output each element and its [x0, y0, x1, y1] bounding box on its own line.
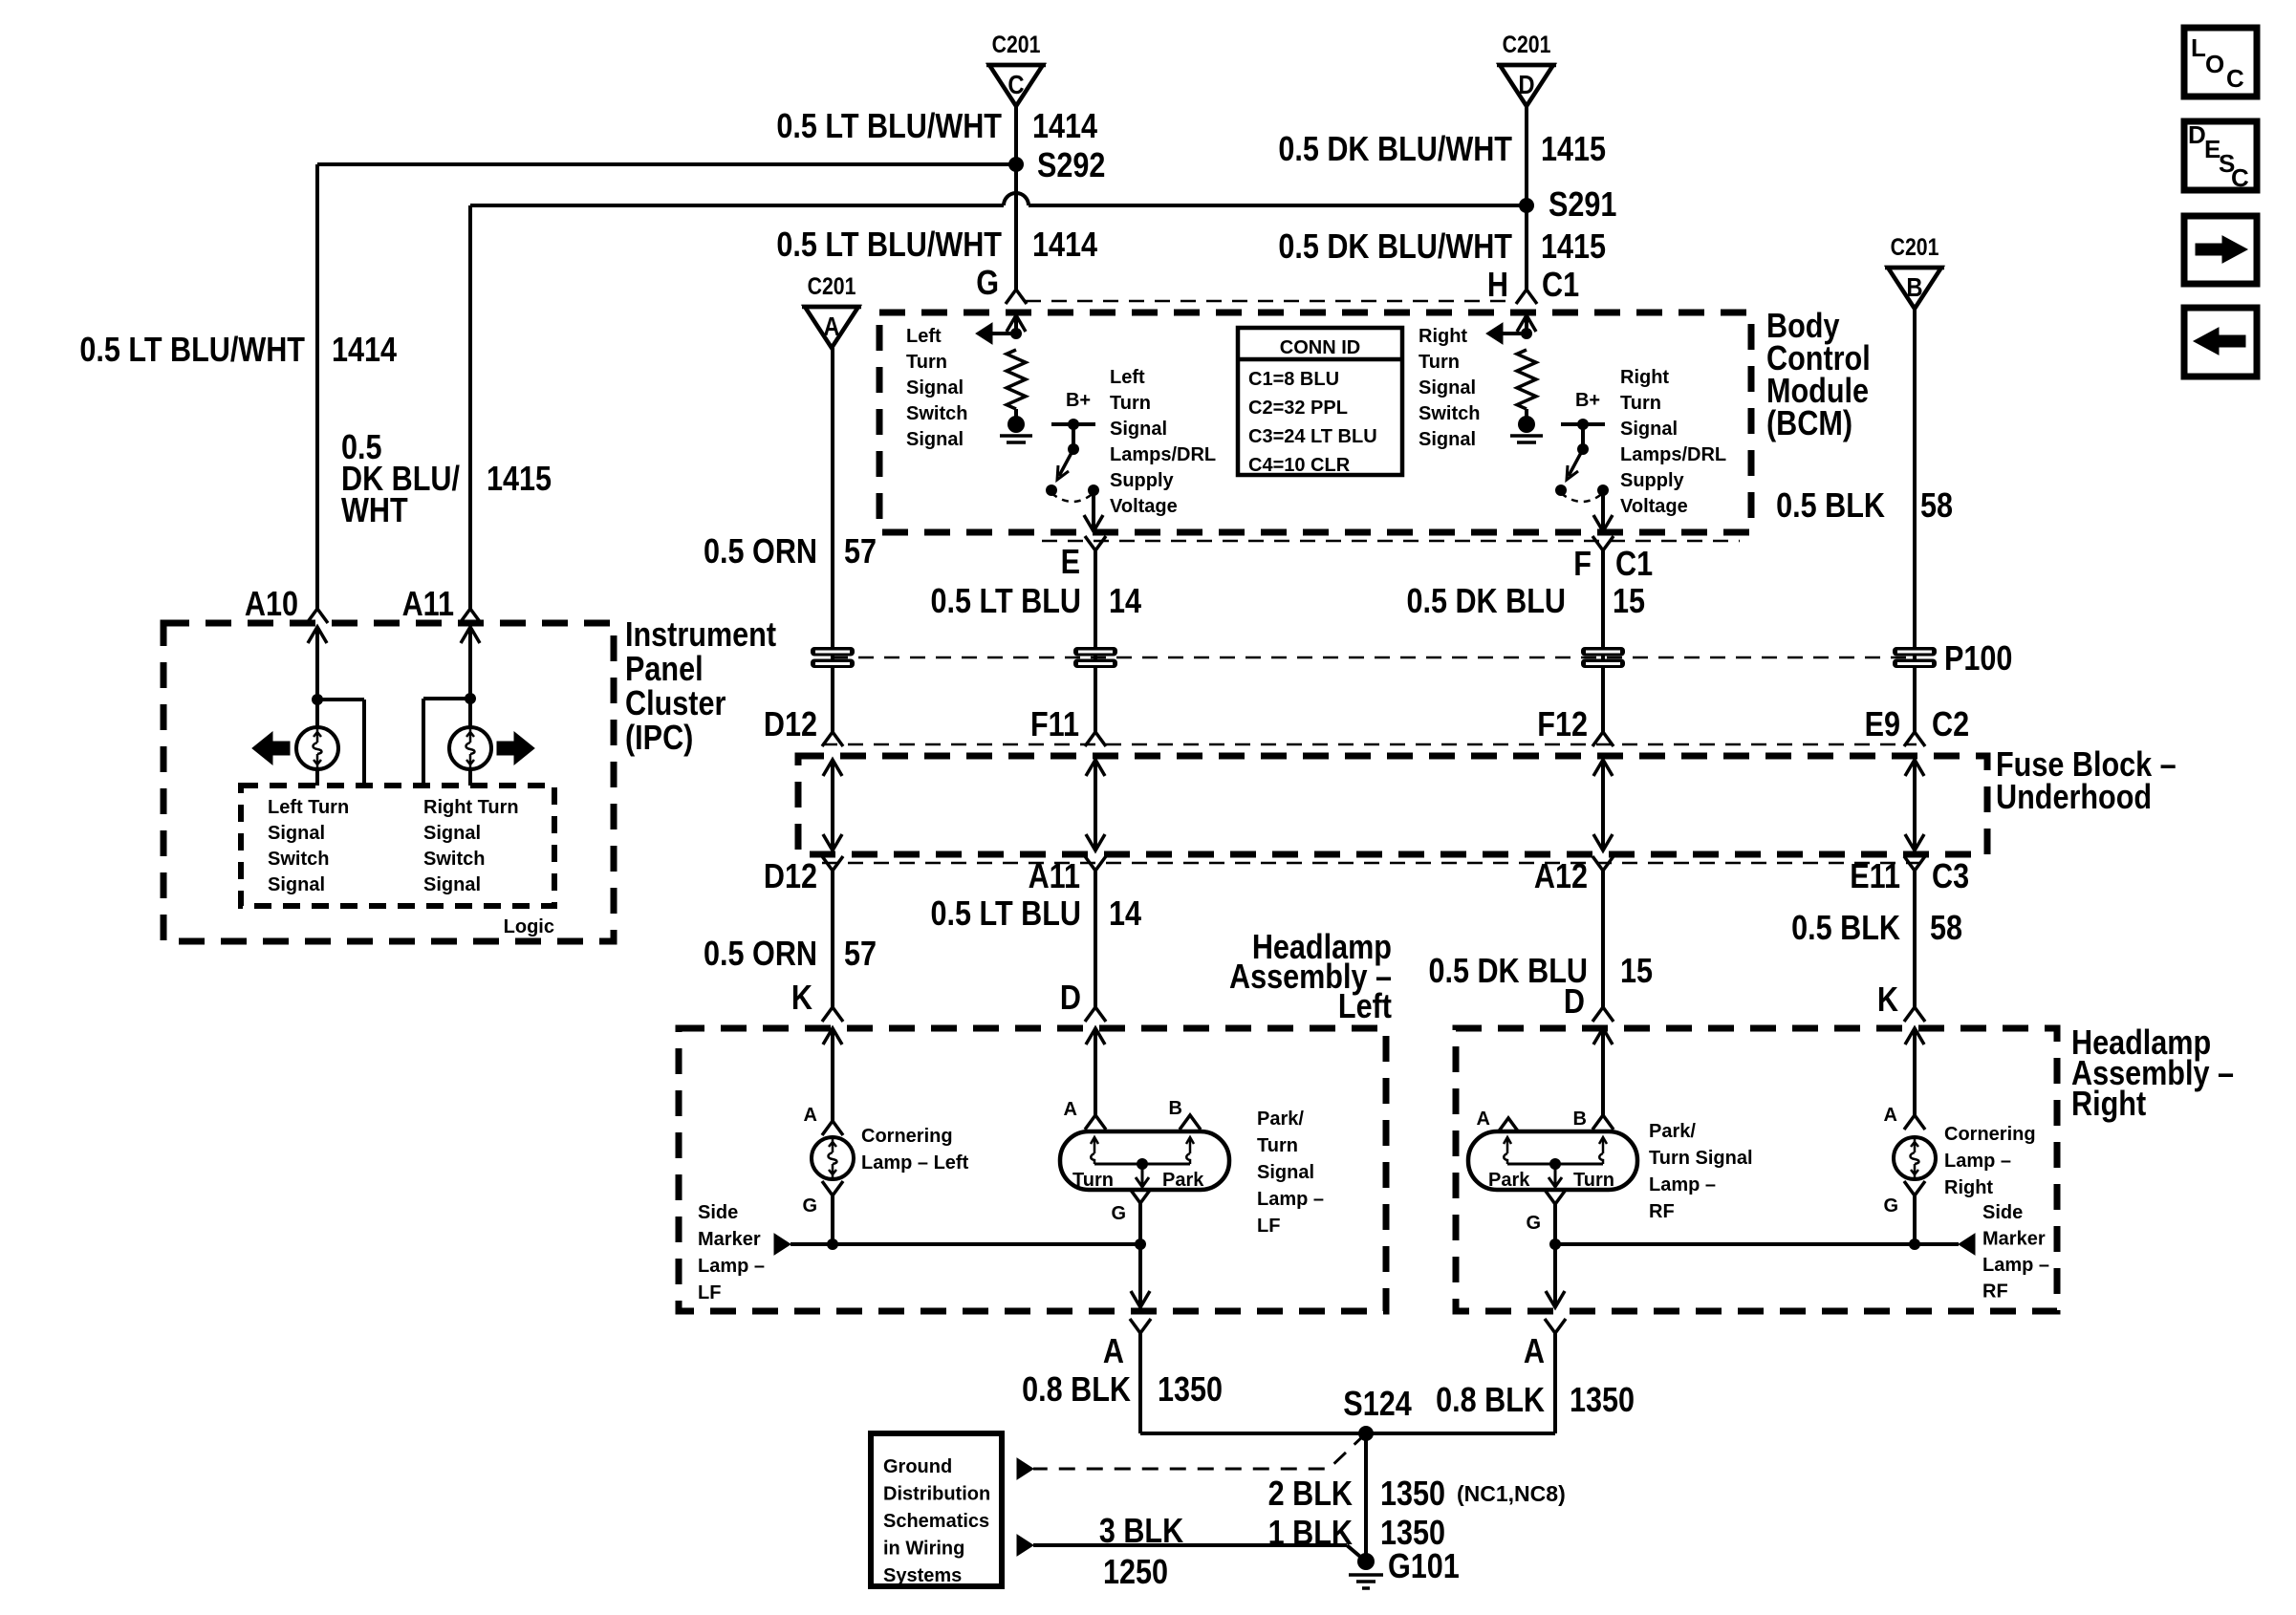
- svg-text:Turn: Turn: [1110, 393, 1151, 414]
- svg-text:B: B: [1906, 271, 1922, 302]
- svg-text:Switch: Switch: [906, 403, 967, 424]
- svg-text:Switch: Switch: [423, 849, 485, 870]
- svg-text:0.5 LT BLU: 0.5 LT BLU: [931, 583, 1081, 621]
- svg-text:Schematics: Schematics: [883, 1511, 989, 1532]
- svg-text:1350: 1350: [1570, 1382, 1635, 1420]
- svg-text:Turn Signal: Turn Signal: [1649, 1148, 1753, 1169]
- svg-text:Lamp –: Lamp –: [1982, 1255, 2049, 1276]
- svg-text:1415: 1415: [487, 461, 552, 499]
- svg-text:15: 15: [1620, 953, 1653, 991]
- svg-text:0.8 BLK: 0.8 BLK: [1436, 1382, 1545, 1420]
- svg-text:LF: LF: [698, 1282, 721, 1303]
- svg-text:0.5 LT BLU/WHT: 0.5 LT BLU/WHT: [776, 226, 1002, 265]
- svg-text:0.5 DK BLU/WHT: 0.5 DK BLU/WHT: [1278, 131, 1512, 169]
- svg-text:CONN ID: CONN ID: [1280, 337, 1360, 358]
- svg-text:57: 57: [844, 936, 877, 974]
- svg-text:(NC1,NC8): (NC1,NC8): [1457, 1481, 1566, 1506]
- svg-text:Turn: Turn: [1072, 1170, 1114, 1191]
- svg-text:Lamp –: Lamp –: [1257, 1189, 1324, 1210]
- svg-text:Turn: Turn: [1419, 352, 1460, 373]
- svg-text:K: K: [791, 980, 812, 1018]
- svg-text:D: D: [2188, 120, 2206, 149]
- svg-text:L: L: [2191, 33, 2206, 62]
- svg-text:F12: F12: [1537, 706, 1588, 744]
- svg-text:C1: C1: [1615, 546, 1653, 584]
- svg-text:Park: Park: [1488, 1170, 1530, 1191]
- svg-text:P100: P100: [1944, 640, 2012, 678]
- svg-text:Cornering: Cornering: [861, 1126, 953, 1147]
- svg-text:B: B: [1169, 1098, 1182, 1119]
- svg-text:G: G: [1883, 1195, 1898, 1217]
- svg-text:A: A: [1884, 1105, 1897, 1126]
- svg-text:Underhood: Underhood: [1996, 779, 2152, 817]
- svg-text:C201: C201: [1503, 31, 1551, 57]
- svg-text:A: A: [1477, 1109, 1490, 1130]
- svg-text:Distribution: Distribution: [883, 1484, 990, 1505]
- svg-text:A10: A10: [245, 586, 298, 624]
- svg-text:Lamp – Left: Lamp – Left: [861, 1152, 969, 1174]
- svg-text:Signal: Signal: [268, 874, 325, 895]
- svg-text:Lamps/DRL: Lamps/DRL: [1110, 444, 1216, 465]
- svg-text:2 BLK: 2 BLK: [1268, 1475, 1353, 1514]
- svg-text:(BCM): (BCM): [1766, 405, 1852, 443]
- svg-text:S292: S292: [1037, 147, 1105, 185]
- svg-text:H: H: [1487, 267, 1508, 305]
- svg-text:C1=8 BLU: C1=8 BLU: [1248, 369, 1339, 390]
- svg-text:B: B: [1573, 1109, 1587, 1130]
- svg-text:G: G: [1526, 1213, 1541, 1234]
- svg-text:57: 57: [844, 533, 877, 571]
- svg-text:Systems: Systems: [883, 1565, 962, 1586]
- svg-text:Lamp –: Lamp –: [1649, 1174, 1716, 1195]
- svg-text:Signal: Signal: [423, 823, 481, 844]
- svg-text:1350: 1350: [1380, 1475, 1445, 1514]
- svg-text:B+: B+: [1066, 390, 1091, 411]
- svg-text:Turn: Turn: [1620, 393, 1661, 414]
- svg-text:C1: C1: [1542, 267, 1579, 305]
- svg-text:C4=10 CLR: C4=10 CLR: [1248, 455, 1351, 476]
- svg-text:F: F: [1573, 546, 1592, 584]
- svg-text:C201: C201: [992, 31, 1041, 57]
- svg-text:Left: Left: [906, 326, 942, 347]
- svg-text:A: A: [823, 311, 839, 341]
- svg-text:K: K: [1877, 981, 1898, 1020]
- svg-text:A: A: [1524, 1333, 1545, 1371]
- svg-text:D: D: [1060, 980, 1081, 1018]
- svg-text:C3: C3: [1932, 858, 1969, 896]
- svg-text:F11: F11: [1030, 706, 1079, 744]
- svg-text:3 BLK: 3 BLK: [1099, 1513, 1183, 1551]
- svg-text:A: A: [804, 1105, 817, 1126]
- svg-text:Supply: Supply: [1110, 470, 1175, 491]
- svg-text:Switch: Switch: [268, 849, 329, 870]
- svg-text:Signal: Signal: [1620, 419, 1678, 440]
- svg-text:C2: C2: [1932, 706, 1969, 744]
- svg-text:Lamp –: Lamp –: [1944, 1151, 2011, 1172]
- svg-text:WHT: WHT: [341, 492, 408, 530]
- svg-text:Right: Right: [1944, 1177, 1993, 1198]
- svg-text:58: 58: [1930, 910, 1962, 948]
- svg-text:0.5 LT BLU: 0.5 LT BLU: [931, 895, 1081, 934]
- svg-text:Left: Left: [1110, 367, 1145, 388]
- svg-text:C2=32 PPL: C2=32 PPL: [1248, 398, 1348, 419]
- svg-text:Lamp –: Lamp –: [698, 1256, 765, 1277]
- svg-text:0.5 LT BLU/WHT: 0.5 LT BLU/WHT: [79, 332, 305, 370]
- svg-text:0.8 BLK: 0.8 BLK: [1022, 1371, 1131, 1410]
- svg-text:Right Turn: Right Turn: [423, 797, 519, 818]
- svg-text:Park: Park: [1162, 1170, 1204, 1191]
- svg-text:Side: Side: [698, 1202, 738, 1223]
- svg-text:E9: E9: [1865, 706, 1900, 744]
- svg-text:1415: 1415: [1541, 228, 1606, 267]
- svg-text:Switch: Switch: [1419, 403, 1480, 424]
- svg-text:Cluster: Cluster: [625, 685, 726, 723]
- svg-text:Marker: Marker: [698, 1229, 761, 1250]
- svg-text:Signal: Signal: [1419, 429, 1476, 450]
- svg-text:Supply: Supply: [1620, 470, 1685, 491]
- svg-text:Marker: Marker: [1982, 1229, 2046, 1250]
- svg-text:E11: E11: [1850, 858, 1900, 896]
- svg-text:Signal: Signal: [268, 823, 325, 844]
- svg-text:C: C: [2226, 64, 2244, 93]
- svg-text:A: A: [1103, 1333, 1124, 1371]
- svg-text:RF: RF: [1982, 1281, 2008, 1303]
- svg-text:C201: C201: [1891, 233, 1939, 260]
- svg-text:1350: 1350: [1158, 1371, 1223, 1410]
- svg-text:Logic: Logic: [504, 916, 554, 937]
- svg-text:Signal: Signal: [906, 429, 964, 450]
- svg-text:14: 14: [1109, 583, 1141, 621]
- svg-text:1414: 1414: [332, 332, 397, 370]
- svg-text:14: 14: [1109, 895, 1141, 934]
- svg-text:D: D: [1518, 69, 1534, 99]
- svg-text:Left: Left: [1338, 988, 1392, 1026]
- svg-text:Left Turn: Left Turn: [268, 797, 349, 818]
- svg-text:Lamps/DRL: Lamps/DRL: [1620, 444, 1726, 465]
- svg-text:0.5 DK BLU/WHT: 0.5 DK BLU/WHT: [1278, 228, 1512, 267]
- svg-text:C201: C201: [808, 272, 856, 299]
- svg-text:C: C: [2231, 163, 2249, 192]
- svg-text:Signal: Signal: [1110, 419, 1167, 440]
- svg-text:1414: 1414: [1032, 226, 1097, 265]
- svg-text:B+: B+: [1575, 390, 1600, 411]
- svg-text:0.5 ORN: 0.5 ORN: [704, 936, 817, 974]
- svg-text:Turn: Turn: [906, 352, 947, 373]
- svg-text:A12: A12: [1534, 858, 1588, 896]
- svg-text:D: D: [1564, 983, 1585, 1022]
- svg-text:Park/: Park/: [1649, 1121, 1696, 1142]
- svg-text:S291: S291: [1549, 186, 1616, 225]
- svg-text:1250: 1250: [1103, 1554, 1168, 1592]
- svg-text:O: O: [2205, 50, 2224, 78]
- svg-text:Voltage: Voltage: [1620, 496, 1688, 517]
- svg-text:A: A: [1064, 1099, 1077, 1120]
- svg-text:A11: A11: [402, 586, 454, 624]
- svg-text:G: G: [976, 265, 999, 303]
- svg-text:in Wiring: in Wiring: [883, 1539, 964, 1560]
- svg-text:1414: 1414: [1032, 108, 1097, 146]
- svg-text:Right: Right: [2071, 1086, 2146, 1124]
- svg-text:Ground: Ground: [883, 1456, 952, 1477]
- svg-text:D12: D12: [764, 706, 817, 744]
- svg-text:Instrument: Instrument: [625, 616, 776, 655]
- svg-text:C: C: [1007, 69, 1024, 99]
- svg-text:LF: LF: [1257, 1216, 1280, 1237]
- svg-text:Signal: Signal: [906, 377, 964, 398]
- svg-text:C3=24 LT BLU: C3=24 LT BLU: [1248, 426, 1377, 447]
- svg-text:G101: G101: [1388, 1548, 1460, 1586]
- svg-text:0.5 ORN: 0.5 ORN: [704, 533, 817, 571]
- svg-text:0.5 BLK: 0.5 BLK: [1791, 910, 1900, 948]
- svg-text:Park/: Park/: [1257, 1109, 1304, 1130]
- svg-text:0.5 DK BLU: 0.5 DK BLU: [1406, 583, 1566, 621]
- svg-text:G: G: [1111, 1203, 1126, 1224]
- svg-text:Voltage: Voltage: [1110, 496, 1178, 517]
- svg-text:0.5 BLK: 0.5 BLK: [1776, 487, 1885, 526]
- svg-text:Signal: Signal: [1257, 1162, 1314, 1183]
- svg-text:1415: 1415: [1541, 131, 1606, 169]
- svg-text:A11: A11: [1029, 858, 1080, 896]
- svg-text:15: 15: [1613, 583, 1645, 621]
- svg-text:Side: Side: [1982, 1202, 2023, 1223]
- svg-text:RF: RF: [1649, 1201, 1675, 1222]
- svg-text:0.5 LT BLU/WHT: 0.5 LT BLU/WHT: [776, 108, 1002, 146]
- svg-text:G: G: [802, 1195, 817, 1217]
- svg-text:Right: Right: [1620, 367, 1669, 388]
- svg-text:(IPC): (IPC): [625, 720, 693, 758]
- svg-text:Signal: Signal: [423, 874, 481, 895]
- svg-text:Right: Right: [1419, 326, 1467, 347]
- svg-text:Cornering: Cornering: [1944, 1124, 2036, 1145]
- svg-text:S124: S124: [1343, 1386, 1412, 1424]
- svg-text:Turn: Turn: [1257, 1135, 1298, 1156]
- svg-text:E: E: [1061, 544, 1080, 582]
- svg-text:Panel: Panel: [625, 651, 704, 689]
- svg-text:58: 58: [1920, 487, 1953, 526]
- svg-text:Turn: Turn: [1573, 1170, 1614, 1191]
- svg-text:Signal: Signal: [1419, 377, 1476, 398]
- svg-text:1350: 1350: [1380, 1515, 1445, 1553]
- svg-text:D12: D12: [764, 858, 817, 896]
